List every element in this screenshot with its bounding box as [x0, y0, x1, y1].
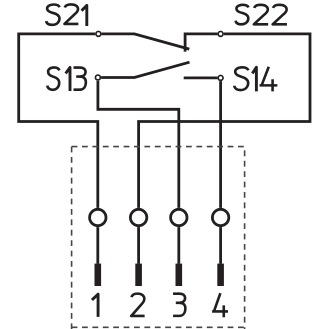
- connector circle 4: [212, 209, 228, 225]
- label S13: [47, 67, 86, 91]
- pin 2: [135, 264, 142, 286]
- connector circle 1: [90, 209, 106, 225]
- connector circle 2: [130, 209, 146, 225]
- pin 1: [95, 264, 102, 286]
- enclosure dashed outline: bottom edge: [72, 326, 245, 328]
- pin label 1: [92, 294, 98, 317]
- contact seat S22 (fixed contact hook): [185, 34, 217, 52]
- wire: net S13 (drop from S13 terminal, jog right, drop to connector 3): [98, 81, 179, 208]
- terminal S14: [218, 75, 223, 80]
- label S14: [234, 67, 277, 92]
- pin 4: [217, 264, 224, 286]
- connector circle 3: [171, 209, 187, 225]
- pin 3: [176, 264, 183, 286]
- contact arm S13-S14 (NO moving contact): [101, 62, 189, 77]
- enclosure dashed outline: right edge: [244, 147, 246, 329]
- wire: net S14 (drop from S14 terminal to connector 4): [219, 81, 222, 208]
- label S21: [46, 4, 87, 26]
- enclosure dashed outline: top edge: [72, 146, 245, 148]
- wire: net S14 fixed-contact stub: [184, 77, 218, 80]
- terminal S22: [218, 31, 223, 36]
- label S22: [236, 5, 287, 24]
- wire: connector 2 to pin 2: [137, 227, 140, 264]
- wire: connector 1 to pin 1: [96, 227, 99, 264]
- terminal S21: [96, 31, 101, 36]
- wire: net S22 (top-right edge, right edge, bottom-right edge, drop to connector 2): [139, 34, 310, 208]
- pin label 2: [131, 294, 144, 316]
- contact arm S21-S22 (NC moving contact): [102, 34, 190, 49]
- pin label 3: [173, 294, 185, 316]
- pin label 4: [212, 293, 228, 317]
- terminal S13: [95, 75, 100, 80]
- wire: connector 3 to pin 3: [177, 227, 180, 264]
- enclosure dashed outline: left edge: [71, 147, 73, 329]
- wire: connector 4 to pin 4: [219, 227, 222, 264]
- wire: net S21 (top-left edge, left edge, bottom-left edge, drop to connector 1): [19, 34, 98, 208]
